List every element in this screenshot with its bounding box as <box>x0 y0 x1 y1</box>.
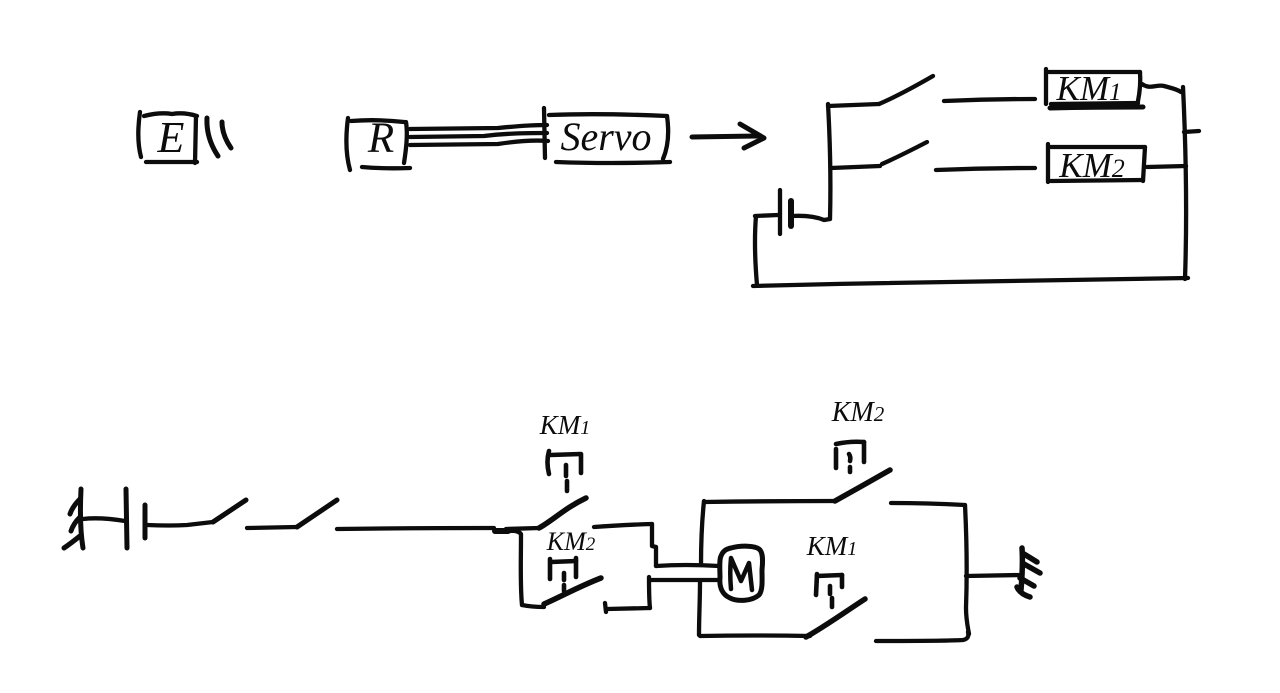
junction tick <box>495 528 508 534</box>
wire battery to SB1 <box>147 522 213 526</box>
wire KM1 blade to right vertical <box>876 632 968 641</box>
wire bottom to KM2 aux <box>605 603 650 612</box>
switch KM1 NC blade <box>806 599 865 637</box>
motor body <box>720 546 763 600</box>
battery bottom circuit <box>126 489 145 548</box>
wire ground to battery <box>83 518 125 521</box>
svg-text:Servo: Servo <box>560 114 651 159</box>
block R box <box>346 118 410 170</box>
wire node bottom jog <box>522 605 544 607</box>
wire battery right <box>792 216 830 220</box>
big box top <box>704 501 836 502</box>
ground right <box>1017 548 1040 597</box>
switch KM2 NC blade <box>835 470 890 501</box>
contactor coil KM1 box <box>1046 69 1143 108</box>
wire bottom top circuit <box>753 278 1188 286</box>
contact KM1 NC symbol <box>816 574 842 607</box>
svg-text:KM1: KM1 <box>1056 69 1122 108</box>
wire node to KM1 contact <box>506 528 539 529</box>
svg-text:KM2: KM2 <box>1058 146 1125 185</box>
signal waves <box>207 118 231 156</box>
wire battery left <box>755 215 778 216</box>
contact KM1 aux symbol <box>548 451 582 491</box>
svg-text:R: R <box>367 115 394 162</box>
wire KM2 blade to right <box>891 503 965 505</box>
motor lead top <box>656 565 719 566</box>
label M <box>730 558 752 590</box>
cable R to Servo <box>410 125 548 145</box>
wire corner down to motor lead <box>652 524 656 566</box>
svg-text:E: E <box>157 113 185 162</box>
switch SB1 <box>213 500 246 522</box>
wire node drop <box>509 531 522 605</box>
wire SB1 to SB2 <box>247 527 297 528</box>
wire KM2 to right rail <box>1147 166 1186 167</box>
wire top branch <box>828 104 879 106</box>
motor lead bottom <box>651 578 719 582</box>
switch KM2 aux <box>544 578 601 604</box>
svg-text:KM2: KM2 <box>831 397 885 428</box>
wire KM1 to right rail <box>1142 84 1181 92</box>
stub on right rail <box>1184 131 1199 132</box>
big box bottom <box>700 633 810 638</box>
switch contact to KM1 <box>879 76 933 104</box>
svg-text:KM1: KM1 <box>539 410 591 440</box>
wire left rail top circuit <box>828 104 830 219</box>
switch SB2 <box>297 500 337 527</box>
ground left <box>64 489 83 548</box>
svg-text:KM1: KM1 <box>806 531 858 561</box>
block Servo box <box>544 108 670 163</box>
contact KM2 NC symbol <box>836 442 864 472</box>
svg-text:KM2: KM2 <box>546 527 596 556</box>
big box left side <box>699 501 704 635</box>
block E box <box>138 112 197 163</box>
wire to ground right <box>966 575 1021 576</box>
wire left rail drop <box>755 216 757 285</box>
wire to KM1 coil <box>944 99 1035 101</box>
wire right vertical <box>965 505 969 634</box>
wire SB2 to node <box>337 528 494 529</box>
wire motor bottom drop <box>649 577 650 608</box>
wire second branch <box>831 166 880 168</box>
wire right rail <box>1183 87 1186 279</box>
battery top circuit <box>780 190 791 234</box>
switch contact to KM2 <box>882 142 927 164</box>
contact KM2 aux symbol <box>550 558 576 591</box>
switch KM1 aux <box>539 498 586 528</box>
wire to KM2 coil <box>936 168 1035 170</box>
wire KM1 aux to corner <box>594 524 652 527</box>
contactor coil KM2 box <box>1048 144 1145 182</box>
arrow <box>692 124 764 148</box>
